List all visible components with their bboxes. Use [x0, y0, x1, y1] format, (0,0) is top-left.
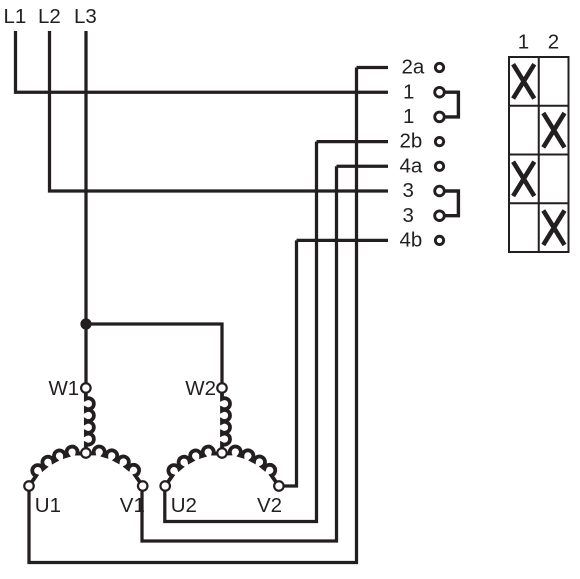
- wire terminal 4a stub: [337, 165, 389, 168]
- switch table grid: [509, 57, 569, 252]
- svg-text:1: 1: [518, 31, 529, 54]
- terminal 1 contact circle: [435, 112, 445, 122]
- terminal 4a contact circle: [435, 162, 443, 170]
- wire L3 down to W1: [84, 31, 87, 384]
- terminal W2 circle: [217, 383, 227, 393]
- svg-text:L2: L2: [38, 5, 61, 28]
- svg-text:1: 1: [403, 80, 414, 103]
- terminal 4b contact circle: [435, 236, 443, 244]
- jumper between terminals 3 and 3: [446, 191, 459, 216]
- terminal U2 circle: [160, 481, 170, 491]
- terminal 2b contact circle: [435, 137, 443, 145]
- terminal V1 circle: [138, 481, 148, 491]
- svg-text:W1: W1: [48, 377, 79, 400]
- svg-text:V2: V2: [257, 494, 282, 517]
- svg-text:U2: U2: [171, 494, 197, 517]
- svg-text:1: 1: [403, 105, 414, 128]
- wire V2 to 4b: [283, 240, 297, 486]
- svg-text:2b: 2b: [400, 130, 423, 153]
- terminal W1 circle: [81, 383, 91, 393]
- contact closed mark row 2 position 2: [543, 113, 564, 147]
- wire U2 to 2b: [165, 142, 317, 522]
- terminal 3 contact circle: [435, 186, 445, 196]
- winding W1 coil (vertical leg): [86, 393, 94, 449]
- svg-text:2: 2: [548, 31, 559, 54]
- terminal V2 circle: [274, 481, 284, 491]
- wire junction branch to W2: [86, 324, 222, 384]
- svg-text:4a: 4a: [400, 154, 423, 177]
- svg-text:4b: 4b: [400, 229, 423, 252]
- winding U1-V1 coil (arch legs): [29, 447, 143, 486]
- wire U1 to 2a: [29, 68, 357, 563]
- wire terminal 2a stub: [357, 66, 389, 69]
- svg-text:U1: U1: [35, 494, 61, 517]
- svg-text:3: 3: [403, 179, 414, 202]
- contact closed mark row 1 position 1: [513, 64, 534, 98]
- contact closed mark row 4 position 2: [543, 211, 564, 245]
- star point node of W2 winding: [217, 448, 227, 458]
- winding U2-V2 coil (arch legs): [165, 447, 279, 486]
- wire L1 to terminal 1: [16, 31, 389, 92]
- terminal 2a contact circle: [435, 63, 443, 71]
- wire L2 to terminal 3: [50, 31, 389, 191]
- wire terminal 4b stub: [297, 239, 389, 242]
- svg-text:W2: W2: [185, 377, 216, 400]
- svg-text:2a: 2a: [402, 56, 425, 79]
- junction node on L3: [80, 318, 91, 329]
- svg-text:L1: L1: [4, 5, 27, 28]
- star point node of W1 winding: [81, 448, 91, 458]
- terminal 3 contact circle: [435, 211, 445, 221]
- wire V1 to 4a: [142, 166, 337, 541]
- svg-text:L3: L3: [74, 5, 97, 28]
- terminal 1 contact circle: [435, 87, 445, 97]
- svg-text:3: 3: [403, 204, 414, 227]
- jumper between terminals 1 and 1: [446, 92, 459, 117]
- contact closed mark row 3 position 1: [513, 162, 534, 196]
- terminal U1 circle: [24, 481, 34, 491]
- winding W2 coil (vertical leg): [222, 393, 230, 449]
- wire terminal 2b stub: [317, 140, 389, 143]
- svg-text:V1: V1: [120, 494, 145, 517]
